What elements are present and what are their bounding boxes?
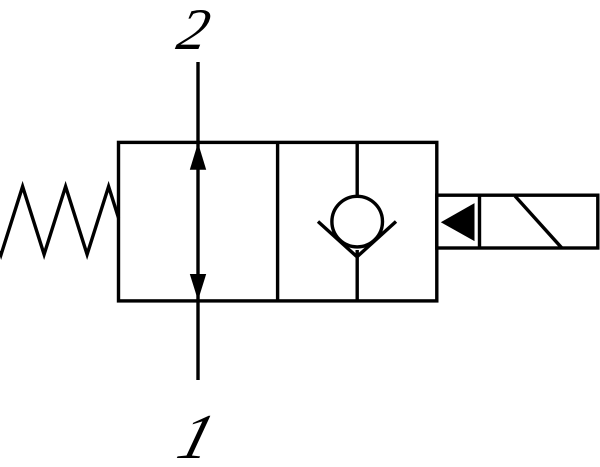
valve body: position divider [276,142,279,301]
spring [0,187,119,255]
check valve: lower stem [356,250,359,301]
solenoid actuator: push triangle [441,203,475,241]
solenoid actuator: divider [478,195,481,248]
svg-text:2: 2 [172,0,217,62]
flow path arrowhead down [190,274,206,300]
check valve: upper stem [356,142,359,196]
wire: vertical flow line port 2 to port 1 [196,62,199,380]
solenoid actuator: body rectangle [437,195,598,248]
check valve: ball [332,196,383,247]
flow path arrowhead up [190,143,206,170]
check valve: seat V [318,222,396,257]
port label 1 [170,402,222,467]
port label 2 [172,0,217,62]
solenoid actuator: coil slash [515,196,562,248]
svg-text:1: 1 [170,402,222,467]
valve body: envelope rectangle [119,142,437,301]
